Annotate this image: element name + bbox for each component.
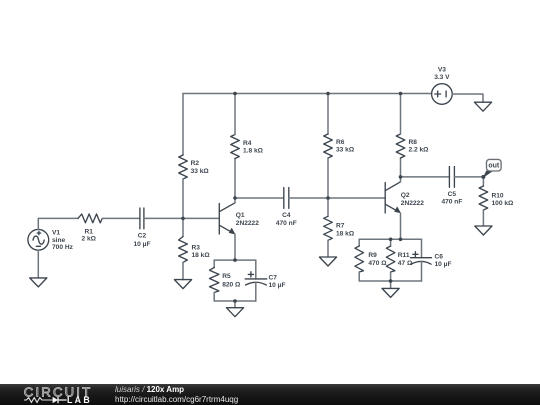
svg-text:C6: C6 bbox=[435, 253, 444, 260]
svg-text:820 Ω: 820 Ω bbox=[222, 282, 241, 289]
junction node rail-R4 bbox=[233, 92, 237, 96]
svg-text:2N2222: 2N2222 bbox=[401, 200, 424, 207]
svg-text:R9: R9 bbox=[368, 252, 377, 259]
svg-text:LAB: LAB bbox=[67, 395, 92, 405]
resistor R5 bbox=[210, 268, 219, 293]
wire C5 to out node bbox=[454, 176, 483, 178]
ground below R7 bbox=[319, 257, 336, 266]
resistor R9 bbox=[355, 246, 364, 272]
svg-text:10 µF: 10 µF bbox=[269, 282, 286, 289]
wire collector node to C4 bbox=[235, 197, 284, 199]
footer title and url bbox=[115, 385, 238, 404]
wire V1 to R1 bbox=[38, 218, 78, 229]
svg-text:18 kΩ: 18 kΩ bbox=[336, 231, 355, 238]
wire R10 to ground bbox=[482, 210, 484, 226]
wire R1 to C2 bbox=[102, 217, 140, 219]
svg-text:C2: C2 bbox=[138, 233, 147, 240]
svg-text:C7: C7 bbox=[269, 275, 278, 282]
svg-text:sine: sine bbox=[52, 237, 66, 244]
svg-text:R11: R11 bbox=[398, 252, 410, 259]
junction node rail-R8 bbox=[399, 92, 403, 96]
svg-text:Q2: Q2 bbox=[401, 192, 410, 199]
wire R7 to ground bbox=[327, 240, 329, 257]
wire collector node to C5 bbox=[401, 176, 450, 178]
wire R11 bottom lead bbox=[390, 272, 392, 281]
svg-text:47 Ω: 47 Ω bbox=[398, 260, 413, 267]
svg-text:700 Hz: 700 Hz bbox=[52, 244, 74, 251]
wire R4 to rail bbox=[234, 94, 236, 135]
resistor R8 bbox=[396, 134, 405, 158]
svg-text:470 Ω: 470 Ω bbox=[368, 260, 387, 267]
resistor R4 bbox=[231, 135, 240, 159]
wire R6 top bbox=[327, 94, 329, 135]
svg-text:3.3 V: 3.3 V bbox=[434, 74, 450, 81]
wire Q2 emitter down bbox=[400, 213, 402, 239]
svg-text:33 kΩ: 33 kΩ bbox=[191, 168, 210, 175]
svg-text:2 kΩ: 2 kΩ bbox=[81, 235, 96, 242]
wire R9 R11 C6 box top bbox=[359, 238, 421, 240]
wire R7 top lead bbox=[327, 198, 329, 216]
resistor R2 bbox=[179, 155, 188, 179]
resistor R7 bbox=[324, 216, 333, 240]
junction node Q2 emitter box bbox=[399, 238, 403, 242]
resistor R3 bbox=[179, 237, 188, 263]
capacitor C2 bbox=[140, 208, 144, 229]
capacitor C6 bbox=[411, 239, 432, 281]
transistor Q2 bbox=[385, 182, 401, 214]
svg-text:470 nF: 470 nF bbox=[441, 199, 462, 206]
svg-text:10 µF: 10 µF bbox=[134, 241, 151, 248]
svg-text:out: out bbox=[488, 163, 500, 170]
resistor R6 bbox=[324, 134, 333, 158]
svg-text:18 kΩ: 18 kΩ bbox=[192, 252, 211, 259]
node out flag bbox=[483, 159, 501, 178]
transistor Q1 bbox=[219, 203, 235, 235]
capacitor C7 bbox=[245, 260, 267, 301]
svg-text:V1: V1 bbox=[52, 230, 60, 237]
wire Q1 collector up bbox=[234, 159, 236, 203]
wire R5 top lead bbox=[213, 260, 215, 267]
ground below R10 bbox=[475, 226, 492, 235]
svg-text:33 kΩ: 33 kΩ bbox=[336, 147, 355, 154]
ground below R9 R11 C6 bbox=[382, 288, 399, 297]
svg-text:R6: R6 bbox=[336, 139, 345, 146]
voltage source V3 bbox=[432, 84, 453, 105]
wire R3 to ground bbox=[182, 262, 184, 279]
wire R6 bottom bbox=[327, 158, 329, 198]
wire Q1 emitter down bbox=[234, 234, 236, 260]
wire R9 top lead bbox=[358, 239, 360, 246]
wire R5 bottom lead bbox=[214, 293, 256, 302]
svg-text:R7: R7 bbox=[336, 223, 345, 230]
ground below V1 bbox=[30, 278, 47, 287]
resistor R10 bbox=[479, 186, 488, 210]
junction node R11 top bbox=[389, 238, 393, 242]
capacitor C4 bbox=[284, 188, 289, 209]
svg-text:V3: V3 bbox=[438, 67, 446, 74]
svg-text:R4: R4 bbox=[243, 140, 252, 147]
ground below R3 bbox=[174, 280, 191, 289]
svg-text:C5: C5 bbox=[448, 191, 457, 198]
junction node Q2 collector bbox=[399, 175, 403, 179]
wire box to ground bbox=[234, 301, 236, 308]
svg-text:R2: R2 bbox=[191, 160, 200, 167]
svg-text:R3: R3 bbox=[192, 244, 201, 251]
svg-text:1.8 kΩ: 1.8 kΩ bbox=[243, 148, 264, 155]
voltage source V1 bbox=[28, 229, 49, 250]
svg-text:470 nF: 470 nF bbox=[276, 220, 297, 227]
wire R2 bottom lead bbox=[182, 179, 184, 218]
ground below V3 bbox=[474, 102, 491, 111]
wire R8 to rail bbox=[400, 94, 402, 135]
wire R2 top lead bbox=[182, 94, 184, 156]
CircuitLab logo bbox=[23, 385, 95, 405]
wire R9 bottom lead bbox=[359, 272, 421, 281]
resistor R11 bbox=[386, 246, 395, 272]
wire R11 top lead bbox=[390, 239, 392, 246]
junction node R6 R7 bbox=[326, 196, 330, 200]
svg-text:100 kΩ: 100 kΩ bbox=[492, 200, 515, 207]
footer bar bbox=[0, 384, 540, 405]
junction node Q1 collector bbox=[233, 196, 237, 200]
wire R5 C7 box top bbox=[214, 259, 256, 261]
capacitor C5 bbox=[449, 167, 454, 188]
junction node out bbox=[481, 175, 485, 179]
svg-text:10 µF: 10 µF bbox=[435, 261, 452, 268]
wire V3 to ground bbox=[452, 94, 483, 102]
junction node box bottom bbox=[233, 299, 237, 303]
svg-text:R8: R8 bbox=[409, 139, 418, 146]
junction node rail-R6 bbox=[326, 92, 330, 96]
wire C2 to Q1 base bbox=[144, 217, 219, 219]
svg-text:2.2 kΩ: 2.2 kΩ bbox=[409, 147, 430, 154]
junction node Q1 emitter box bbox=[233, 258, 237, 262]
wire box2 to ground bbox=[390, 281, 392, 288]
resistor R1 bbox=[78, 214, 102, 223]
svg-text:Q1: Q1 bbox=[236, 212, 245, 219]
wire Q2 collector up bbox=[400, 158, 402, 182]
svg-text:2N2222: 2N2222 bbox=[236, 220, 259, 227]
wire top rail bbox=[183, 93, 432, 95]
ground below R5 C7 bbox=[226, 308, 243, 317]
wire V1 to ground bbox=[37, 250, 39, 278]
svg-text:R5: R5 bbox=[222, 273, 231, 280]
svg-text:R10: R10 bbox=[492, 192, 504, 199]
wire R10 top lead bbox=[482, 177, 484, 186]
junction node base Q1 bbox=[181, 217, 185, 221]
svg-text:C4: C4 bbox=[282, 212, 291, 219]
junction node box2 bottom bbox=[389, 279, 393, 283]
wire C4 to Q2 base bbox=[289, 197, 385, 199]
wire R3 top lead bbox=[182, 218, 184, 236]
